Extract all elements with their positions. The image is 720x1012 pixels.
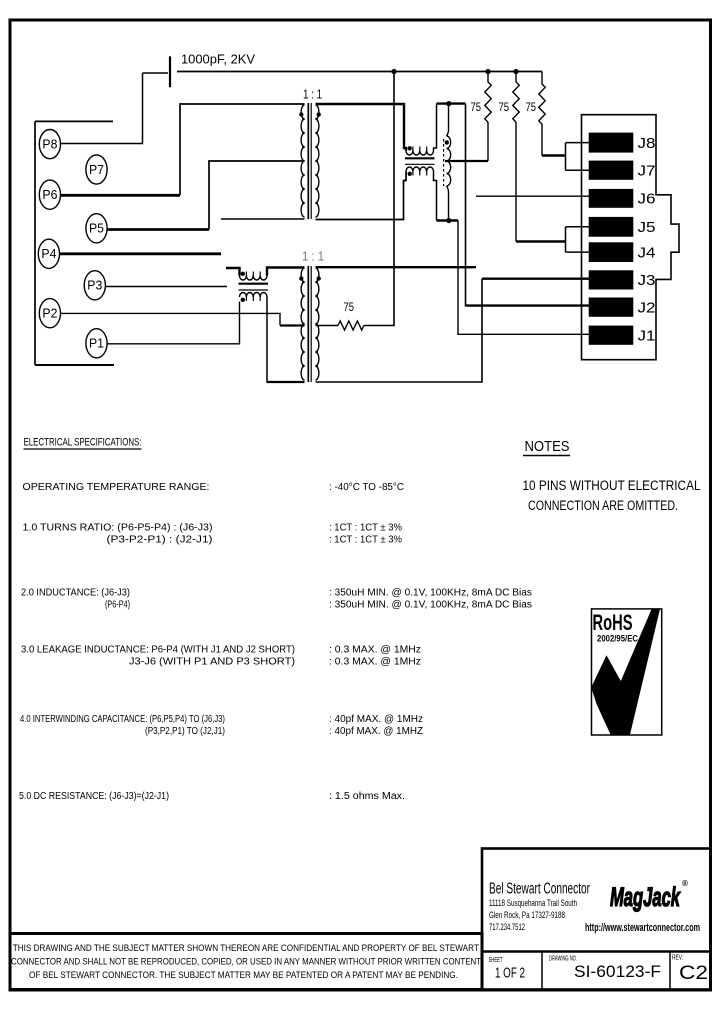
svg-text:J7: J7 — [638, 162, 656, 179]
transformer T2 secondary winding — [315, 268, 319, 380]
wire P8 to capacitor C1 — [60, 73, 142, 144]
spec row 1.0 turns ratio — [23, 523, 403, 546]
choke CMC1 top winding — [226, 268, 305, 281]
svg-text:1000pF, 2KV: 1000pF, 2KV — [181, 52, 255, 67]
wire T1 primary bottom stub — [221, 218, 305, 220]
wire top path down to J2 — [466, 104, 590, 306]
svg-text:Bel Stewart Connector: Bel Stewart Connector — [489, 881, 590, 898]
autotransformer winding W1 (dashed core) — [444, 104, 451, 221]
RoHS logo box — [591, 609, 662, 735]
svg-text:: -40°C TO -85°C: : -40°C TO -85°C — [329, 482, 404, 493]
svg-text:(P6-P4): (P6-P4) — [105, 600, 130, 611]
phase dot T2 secondary — [317, 276, 321, 280]
svg-text:: 350uH MIN. @ 0.1V, 100KHz, 8: : 350uH MIN. @ 0.1V, 100KHz, 8mA DC Bias — [329, 600, 532, 611]
svg-text:J4: J4 — [638, 244, 656, 261]
contact pad J8 — [589, 133, 656, 153]
svg-text:1 : 1: 1 : 1 — [302, 250, 324, 264]
wire bottom path down to J1 — [458, 221, 589, 335]
transformer T2 ratio label 1 : 1 — [302, 250, 324, 264]
website url — [585, 922, 700, 934]
spec row 4.0 interwinding capacitance — [20, 714, 423, 737]
note text — [523, 478, 701, 513]
value label 75 for R1 — [471, 100, 482, 114]
wire W1 center tap to R1 — [445, 160, 488, 162]
svg-text:(P3-P2-P1) : (J2-J1): (P3-P2-P1) : (J2-J1) — [107, 535, 213, 546]
transformer T1 core — [308, 103, 311, 219]
svg-text:J8: J8 — [638, 135, 656, 152]
svg-text:717.234.7512: 717.234.7512 — [489, 922, 525, 932]
svg-text:2002/95/EC: 2002/95/EC — [597, 634, 638, 644]
svg-text:P5: P5 — [89, 222, 104, 236]
svg-text:2.0 INDUCTANCE: (J6-J3): 2.0 INDUCTANCE: (J6-J3) — [21, 588, 130, 599]
wire R3 to J8 J7 bracket — [542, 154, 566, 156]
wire J3 feed — [482, 278, 589, 280]
pin P1 — [86, 329, 107, 358]
wire: top termination rail from C1 to resistors — [177, 71, 542, 73]
wire P1 to choke CMC1 bottom winding — [107, 302, 240, 344]
transformer T1 secondary winding — [315, 105, 319, 217]
svg-text:SI-60123-F: SI-60123-F — [574, 963, 661, 981]
svg-text:NOTES: NOTES — [525, 438, 570, 455]
MagJack logo — [610, 879, 688, 912]
disclaimer box — [10, 934, 482, 990]
choke CMC1 bottom winding — [240, 293, 305, 383]
svg-text:P2: P2 — [42, 307, 57, 321]
svg-text:1.0 TURNS RATIO: (P6-P5-P4) :: 1.0 TURNS RATIO: (P6-P5-P4) : (J6-J3) — [23, 523, 213, 534]
capacitor C1 1000pF 2KV — [143, 56, 171, 87]
svg-text:75: 75 — [499, 100, 510, 114]
junction dot T3 top — [446, 101, 451, 106]
drawing number cell — [549, 956, 661, 982]
phase dot T1 secondary — [317, 112, 321, 116]
wire T2 secondary top long line toward J6 column — [316, 266, 477, 268]
svg-text:: 1CT : 1CT ± 3%: : 1CT : 1CT ± 3% — [329, 535, 402, 546]
svg-text:OPERATING TEMPERATURE RANGE:: OPERATING TEMPERATURE RANGE: — [23, 482, 210, 493]
resistor R3 75 ohm — [539, 72, 545, 156]
pin P3 — [84, 271, 105, 300]
svg-text:: 40pf MAX. @ 1MHZ: : 40pf MAX. @ 1MHZ — [329, 726, 423, 737]
svg-text:http://www.stewartconnector.co: http://www.stewartconnector.com — [585, 922, 700, 934]
phase dot T1 primary — [299, 112, 303, 116]
svg-text:CONNECTOR AND SHALL NOT BE REP: CONNECTOR AND SHALL NOT BE REPRODUCED, C… — [11, 957, 481, 968]
svg-text:THIS DRAWING AND THE SUBJECT M: THIS DRAWING AND THE SUBJECT MATTER SHOW… — [13, 943, 479, 954]
contact pad J3 — [589, 270, 656, 289]
svg-text:(P3,P2,P1) TO (J2,J1): (P3,P2,P1) TO (J2,J1) — [145, 726, 225, 737]
wire P3 — [105, 286, 227, 288]
wire bracket shorting J5 J4 — [566, 227, 590, 252]
choke T3 top winding — [406, 104, 437, 155]
wire T2 secondary center tap to resistor R4 — [316, 325, 339, 327]
spec row 2.0 inductance — [21, 588, 532, 611]
wire T2 secondary bottom to J3 — [316, 279, 483, 382]
svg-text:SHEET: SHEET — [489, 957, 503, 964]
svg-text:OF BEL STEWART CONNECTOR. THE: OF BEL STEWART CONNECTOR. THE SUBJECT MA… — [29, 970, 458, 981]
svg-text:MagJack: MagJack — [610, 882, 681, 912]
svg-text:ELECTRICAL SPECIFICATIONS:: ELECTRICAL SPECIFICATIONS: — [24, 437, 142, 449]
pin P5 — [86, 214, 107, 243]
svg-text:P1: P1 — [89, 337, 104, 351]
choke T3 core — [405, 158, 435, 164]
svg-text:3.0 LEAKAGE INDUCTANCE: P6-P4: 3.0 LEAKAGE INDUCTANCE: P6-P4 (WITH J1 A… — [21, 645, 295, 656]
wire bracket shorting J8 J7 — [566, 143, 590, 171]
contact pad J1 — [589, 326, 656, 345]
sheet cell — [489, 957, 526, 982]
spec row 3.0 leakage inductance — [21, 645, 421, 668]
value label 75 for R2 — [499, 100, 510, 114]
svg-text:P8: P8 — [42, 138, 57, 152]
svg-text:P3: P3 — [87, 279, 102, 293]
phase dot CMC1 top — [241, 272, 245, 276]
title block frame — [482, 849, 711, 990]
pin P2 — [39, 299, 60, 328]
svg-text:P6: P6 — [42, 188, 57, 202]
svg-text:C2: C2 — [679, 963, 708, 984]
junction dot rail at R1 — [485, 69, 490, 74]
choke CMC1 core — [239, 284, 269, 290]
pin P4 — [38, 239, 59, 268]
resistor R1 75 ohm — [485, 72, 491, 162]
wire R4 to center rail vertical — [364, 72, 394, 326]
contact pad J6 — [589, 189, 656, 208]
svg-text:J6: J6 — [638, 191, 656, 208]
svg-text:REV.: REV. — [672, 955, 683, 962]
junction dot rail at center vertical — [391, 69, 396, 74]
pin P7 — [86, 155, 107, 184]
svg-text:J1: J1 — [638, 327, 656, 344]
svg-text:DRAWING NO.: DRAWING NO. — [549, 956, 577, 963]
wire T3 output top junction — [437, 102, 466, 104]
value label 75 for R4 — [344, 300, 355, 314]
transformer T2 primary winding — [301, 268, 305, 380]
phase dot CMC1 bottom — [241, 298, 245, 302]
wire P4 — [59, 252, 221, 255]
svg-text:J3: J3 — [638, 272, 656, 289]
pin P6 — [39, 180, 60, 209]
svg-text:RoHS: RoHS — [593, 610, 633, 635]
svg-text:: 1.5 ohms Max.: : 1.5 ohms Max. — [329, 791, 405, 802]
value label 75 for R3 — [526, 100, 537, 114]
svg-text:Glen Rock, Pa 17327-9188: Glen Rock, Pa 17327-9188 — [489, 910, 565, 920]
wire T1 secondary top to choke T3 — [316, 104, 407, 151]
svg-text:75: 75 — [344, 300, 355, 314]
svg-text:75: 75 — [471, 100, 482, 114]
spec row operating temperature — [23, 482, 405, 493]
phase dot T3 bottom — [408, 172, 412, 176]
svg-text:: 0.3 MAX. @ 1MHz: : 0.3 MAX. @ 1MHz — [329, 657, 421, 668]
contact pad J2 — [589, 298, 656, 317]
connector J1-J8 outline (RJ45 plug profile) — [582, 115, 680, 360]
contact pad J7 — [589, 161, 656, 180]
wire: left vertical bus bracket around P pins — [35, 121, 114, 365]
heading ELECTRICAL SPECIFICATIONS — [24, 437, 142, 450]
svg-text:75: 75 — [526, 100, 537, 114]
svg-text:10 PINS WITHOUT ELECTRICAL: 10 PINS WITHOUT ELECTRICAL — [523, 478, 701, 493]
svg-text:1 OF 2: 1 OF 2 — [495, 965, 525, 982]
svg-text:CONNECTION ARE OMITTED.: CONNECTION ARE OMITTED. — [528, 498, 678, 513]
junction dot rail at R2 — [513, 69, 518, 74]
pin P8 — [39, 130, 60, 159]
wire P6 to T1 primary top — [60, 104, 304, 195]
company address — [489, 898, 577, 932]
junction dot T3 bottom — [446, 218, 451, 223]
wire P5 to T1 primary center tap — [107, 161, 305, 230]
svg-text:: 350uH MIN. @ 0.1V, 100KHz, 8: : 350uH MIN. @ 0.1V, 100KHz, 8mA DC Bias — [329, 588, 532, 599]
contact pad J4 — [589, 242, 656, 262]
svg-text:J5: J5 — [638, 219, 656, 236]
transformer T1 primary winding — [301, 105, 305, 217]
wire T3 output bottom junction — [437, 219, 459, 221]
phase dot T3 top — [408, 146, 412, 150]
value label 1000pF 2KV — [181, 52, 255, 67]
svg-text:1 : 1: 1 : 1 — [303, 88, 322, 102]
svg-text:: 0.3 MAX. @ 1MHz: : 0.3 MAX. @ 1MHz — [329, 645, 421, 656]
spec row 5.0 dc resistance — [19, 791, 405, 802]
svg-text:: 1CT : 1CT ± 3%: : 1CT : 1CT ± 3% — [329, 523, 402, 534]
phase dot T2 primary — [299, 276, 303, 280]
wire P2 to T2 primary center tap — [60, 313, 304, 325]
wire T1 secondary bottom to choke T3 — [316, 172, 407, 220]
contact pad J5 — [589, 217, 656, 237]
phase dot W1 — [445, 140, 449, 144]
transformer T1 ratio label 1 : 1 — [303, 88, 322, 102]
revision cell — [672, 955, 708, 985]
choke T3 bottom winding — [406, 167, 437, 221]
svg-text:5.0 DC RESISTANCE: (J6-J3)=(J2: 5.0 DC RESISTANCE: (J6-J3)=(J2-J1) — [19, 791, 169, 802]
svg-text:®: ® — [682, 879, 688, 888]
svg-text:P4: P4 — [41, 247, 56, 261]
svg-text:: 40pf MAX. @ 1MHz: : 40pf MAX. @ 1MHz — [329, 714, 423, 725]
svg-text:P7: P7 — [89, 163, 104, 177]
company name Bel Stewart Connector — [489, 881, 590, 898]
resistor R4 75 ohm — [338, 321, 364, 330]
resistor R2 75 ohm — [513, 72, 519, 242]
svg-text:11118 Susquehanna Trail South: 11118 Susquehanna Trail South — [489, 898, 577, 908]
svg-text:J2: J2 — [638, 299, 656, 316]
svg-text:J3-J6 (WITH P1 AND P3 SHORT): J3-J6 (WITH P1 AND P3 SHORT) — [129, 657, 295, 668]
wire R2 to J5 J4 bracket — [516, 240, 566, 242]
heading NOTES — [523, 438, 570, 456]
transformer T2 core — [308, 266, 311, 382]
wire J6 feed — [476, 195, 589, 197]
svg-text:4.0 INTERWINDING CAPACITANCE:: 4.0 INTERWINDING CAPACITANCE: (P6,P5,P4)… — [20, 714, 225, 725]
